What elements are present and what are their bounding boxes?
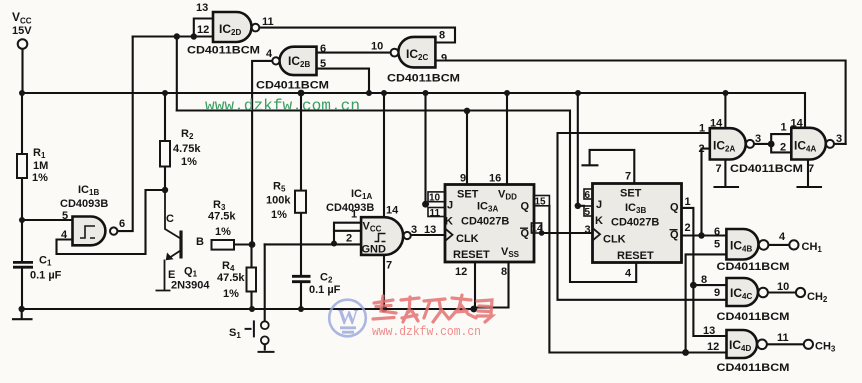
wire IC4A output: [834, 143, 845, 145]
wire IC3B Q pin1 to IC4D pin13: [682, 208, 727, 336]
ground symbol left: [13, 309, 32, 319]
ground rail: [22, 308, 474, 310]
wire S1 to its ground: [264, 344, 266, 349]
svg-text:15V: 15V: [12, 25, 32, 37]
Vcc terminal stem: [21, 49, 23, 93]
junction Vcc rail / IC2A pin14: [723, 90, 729, 96]
junction IC4D pin12 node: [682, 349, 689, 356]
svg-text:CD4011BCM: CD4011BCM: [717, 261, 790, 273]
svg-text:Q: Q: [521, 228, 530, 240]
transistor Q1: [156, 190, 211, 292]
svg-text:1: 1: [699, 123, 705, 135]
svg-text:7: 7: [386, 260, 392, 272]
svg-text:8: 8: [501, 266, 507, 278]
wire IC1A output 3 to IC3A CLK: [411, 234, 445, 236]
svg-text:4: 4: [61, 229, 68, 241]
svg-text:8: 8: [439, 30, 445, 42]
nand gate IC1B: [60, 184, 125, 245]
wire IC3B Qbar pin2 to IC4B pin6: [682, 234, 727, 236]
watermark red chinese characters: [373, 295, 492, 322]
junction IC2A output / IC4A input tie: [768, 141, 775, 148]
svg-text:GND: GND: [362, 244, 387, 256]
resistor R2: [160, 128, 201, 168]
svg-text:12: 12: [455, 266, 467, 278]
terminal CH3: [804, 340, 836, 354]
svg-text:1: 1: [781, 122, 787, 134]
svg-text:CLK: CLK: [456, 233, 479, 245]
junction IC3B J-K tie: [575, 203, 581, 209]
svg-text:7: 7: [716, 163, 722, 175]
nand gate IC4C: [701, 274, 790, 323]
svg-text:5: 5: [62, 210, 68, 222]
wire R4 top: [250, 245, 252, 268]
junction IC2D input wire / tie loop: [191, 33, 197, 39]
junction Vcc rail / IC1A pin14: [381, 90, 387, 96]
svg-text:12: 12: [707, 341, 719, 353]
junction IC3A J-K tie: [422, 201, 429, 208]
svg-text:13: 13: [424, 224, 436, 236]
svg-text:5: 5: [320, 58, 326, 70]
wire IC2C pin9 from IC4A output: [435, 61, 845, 144]
svg-text:0.1 µF: 0.1 µF: [309, 284, 341, 296]
wire IC4D pin12: [686, 351, 727, 353]
svg-text:12: 12: [197, 24, 209, 36]
junction Vcc rail / R5 branch: [298, 90, 305, 97]
svg-text:CLK: CLK: [603, 234, 626, 246]
svg-text:11: 11: [262, 16, 274, 28]
wire IC1A pin7 ground stub: [383, 255, 385, 309]
svg-text:10: 10: [429, 193, 441, 204]
wire reset line descent from node: [176, 37, 178, 111]
svg-text:CD4011BCM: CD4011BCM: [387, 73, 460, 85]
svg-text:RESET: RESET: [453, 249, 490, 261]
junction ground rail / IC1A pin7: [381, 306, 387, 312]
svg-text:8: 8: [701, 274, 707, 286]
wire R2 top: [164, 93, 166, 141]
junction Q1 base node R3-R4: [249, 241, 256, 248]
wire IC2B pin5 to Vcc rail: [317, 69, 370, 93]
svg-text:3: 3: [585, 224, 591, 236]
nand gate IC2C (left facing): [371, 30, 460, 85]
junction IC3A pin14 box corner: [539, 230, 545, 236]
svg-text:1%: 1%: [181, 156, 197, 168]
svg-text:9: 9: [441, 53, 447, 65]
junction Vcc rail / IC3A J-K tie: [423, 90, 429, 96]
svg-text:CD4027B: CD4027B: [611, 217, 659, 229]
svg-text:6: 6: [714, 226, 720, 238]
svg-text:B: B: [196, 236, 204, 248]
svg-text:3: 3: [411, 224, 417, 236]
nand gate IC4D: [703, 325, 790, 374]
wire IC1A pin14 Vcc stub: [383, 93, 385, 217]
ground IC4A pin7: [798, 160, 822, 188]
svg-text:CD4011BCM: CD4011BCM: [187, 45, 260, 57]
svg-text:Q: Q: [670, 229, 679, 241]
wire IC1A input box line: [334, 230, 361, 232]
wire R5 top: [300, 93, 302, 191]
junction IC1A input tie: [331, 241, 337, 247]
nand gate IC2A: [699, 118, 804, 176]
svg-text:1M: 1M: [33, 160, 48, 172]
svg-text:www.dzkfw.com.cn: www.dzkfw.com.cn: [372, 324, 481, 339]
svg-text:10: 10: [777, 281, 789, 293]
svg-text:SET: SET: [620, 188, 642, 200]
svg-text:16: 16: [489, 173, 501, 185]
svg-text:9: 9: [460, 173, 466, 185]
wire IC1B output 6 riser: [118, 37, 133, 232]
junction IC4C pin8 / Q1B riser: [690, 282, 697, 289]
wire IC3B pin7 hook: [583, 150, 635, 184]
wire IC2A output 3 to IC4A tied inputs: [754, 134, 791, 152]
svg-text:4: 4: [779, 231, 786, 243]
wire IC3A pin8 Vss jog: [474, 262, 509, 308]
svg-text:K: K: [445, 216, 453, 228]
svg-text:www.dzkfw.com.cn: www.dzkfw.com.cn: [205, 97, 360, 115]
svg-text:J: J: [596, 199, 602, 211]
svg-text:11: 11: [777, 332, 789, 344]
wire C1 to ground rail: [21, 267, 23, 309]
wire IC2D output 11 to IC2C pin8: [259, 28, 455, 43]
junction Vcc rail / IC3A pin16: [504, 90, 510, 96]
junction ground rail / left ground: [19, 306, 25, 312]
svg-text:J: J: [447, 200, 453, 212]
junction Vcc rail / R1 branch: [19, 90, 25, 96]
svg-text:9: 9: [714, 287, 720, 299]
wire C2 top: [300, 245, 302, 277]
svg-text:6: 6: [119, 218, 125, 230]
capacitor C1: [13, 255, 62, 282]
flip-flop IC3A: [445, 173, 534, 279]
svg-text:10: 10: [371, 41, 383, 53]
svg-text:15: 15: [535, 197, 547, 208]
svg-text:7: 7: [808, 163, 814, 175]
switch S1: [229, 320, 275, 352]
wire node to C1: [21, 220, 23, 262]
wire IC3A Q pin15 to IC4D pin12: [549, 206, 685, 353]
ground IC2A pin7: [715, 160, 739, 188]
svg-text:W: W: [338, 305, 359, 329]
wire IC4B pin5 to IC4D pin12 node: [686, 254, 727, 352]
wire IC2A pin1 to IC4C pin9: [558, 133, 727, 300]
svg-text:CD4011BCM: CD4011BCM: [256, 80, 329, 92]
wire IC1B pin4 feedback loop: [57, 190, 166, 254]
svg-text:2: 2: [685, 222, 691, 234]
svg-text:1: 1: [685, 196, 691, 208]
wire base node to IC1A input (starts after gap at S1 corner): [265, 243, 361, 245]
svg-text:11: 11: [430, 208, 441, 219]
junction Vcc rail / IC2B pin5: [366, 90, 372, 96]
junction IC2D input wire / reset line branch: [174, 33, 180, 39]
svg-text:CD4011BCM: CD4011BCM: [717, 311, 790, 323]
nand gate IC2D: [187, 2, 274, 57]
wire IC2D lower input 12: [133, 35, 213, 37]
svg-text:1%: 1%: [32, 172, 48, 184]
svg-text:6: 6: [320, 43, 326, 55]
svg-text:C: C: [166, 213, 174, 225]
svg-text:5: 5: [714, 239, 720, 251]
wire IC4C output to CH2: [767, 291, 796, 293]
svg-text:100k: 100k: [266, 195, 291, 207]
wire IC4B output to CH1: [768, 244, 790, 246]
junction reset line / IC3A pin9: [464, 108, 470, 114]
resistor R3: [208, 199, 236, 250]
svg-text:14: 14: [791, 118, 804, 130]
capacitor C2: [292, 272, 341, 297]
schmitt nand gate IC1A: [326, 188, 436, 272]
svg-text:SET: SET: [457, 189, 479, 201]
svg-text:1%: 1%: [223, 288, 239, 300]
svg-text:47.5k: 47.5k: [217, 272, 245, 284]
resistor R1: [17, 147, 48, 184]
svg-text:47.5k: 47.5k: [208, 211, 236, 223]
wire reset line to IC3B pin4: [177, 111, 636, 283]
wire IC2A pin14 stub: [724, 93, 726, 128]
svg-text:14: 14: [532, 224, 544, 235]
junction R1-C1 node / IC1B pin5: [19, 217, 25, 223]
Vcc supply label: [12, 10, 32, 49]
svg-text:2: 2: [699, 143, 705, 155]
svg-text:14: 14: [710, 118, 723, 130]
wire IC3B J/K tie from Vcc: [578, 93, 584, 206]
IC3A pin10/11 tie boxes: [428, 192, 446, 219]
junction Vcc rail / IC3B J-K tie: [575, 90, 581, 96]
watermark green url: [205, 97, 360, 115]
svg-text:2N3904: 2N3904: [171, 280, 210, 292]
junction ground rail / IC3A pin12 pin8: [470, 306, 477, 313]
resistor R4: [217, 260, 256, 300]
wire IC1A tied input loop: [334, 223, 361, 244]
wire IC2B output 4 to base node: [252, 61, 272, 245]
svg-text:Q: Q: [670, 202, 679, 214]
svg-text:RESET: RESET: [617, 250, 654, 262]
wire R4 bottom: [250, 292, 252, 310]
svg-text:3: 3: [836, 133, 842, 145]
resistor R5: [266, 181, 306, 222]
svg-text:4: 4: [266, 48, 273, 60]
wire R5 bottom: [300, 213, 302, 245]
svg-text:4.75k: 4.75k: [173, 143, 201, 155]
wire R1 bottom to node: [21, 178, 23, 220]
junction Vcc rail / R2 branch: [162, 90, 168, 96]
svg-text:3: 3: [755, 133, 761, 145]
watermark red url: [372, 324, 481, 339]
wire IC4C pin8: [693, 284, 726, 286]
wire IC4D output to CH3: [766, 343, 804, 345]
junction ground rail / R4: [249, 306, 255, 312]
wire R1 top: [21, 93, 23, 154]
svg-text:CD4011BCM: CD4011BCM: [730, 163, 803, 175]
wire C2 bottom: [300, 282, 302, 309]
nand gate IC4B: [714, 226, 790, 273]
svg-text:5: 5: [585, 207, 591, 218]
svg-text:7: 7: [625, 171, 631, 183]
wire IC3A J/K tie from Vcc: [426, 93, 429, 204]
nand gate IC4A: [780, 118, 842, 176]
wire IC1B pin5: [22, 219, 73, 221]
terminal CH2: [796, 288, 828, 304]
nand gate IC2B (left facing): [256, 43, 329, 92]
terminal CH1: [789, 240, 822, 254]
wire R3 to base node: [234, 243, 252, 245]
svg-text:CD4093B: CD4093B: [60, 198, 108, 210]
wire IC3A Qbar pin14 to IC3B CLK: [542, 232, 593, 234]
wire S1 branch: [264, 244, 266, 321]
IC3A pin14 box: [531, 223, 543, 235]
svg-text:CD4027B: CD4027B: [461, 216, 509, 228]
IC3B pin6/5 tie boxes: [584, 189, 593, 218]
svg-text:2: 2: [780, 142, 786, 154]
svg-text:Q: Q: [521, 201, 530, 213]
wire R2 bottom to collector node: [164, 167, 166, 191]
svg-text:K: K: [595, 215, 603, 227]
svg-text:CD4011BCM: CD4011BCM: [717, 362, 790, 374]
wire IC2C output 10 to IC2B pin6: [317, 52, 391, 54]
svg-text:1%: 1%: [271, 209, 287, 221]
svg-text:CD4093B: CD4093B: [326, 202, 374, 214]
wire IC3A pin12 reset stub: [474, 262, 476, 309]
wire IC3A SET pin9 stub: [466, 111, 468, 185]
svg-text:13: 13: [703, 325, 715, 337]
flip-flop IC3B: [585, 171, 691, 280]
junction R2 / Q1 collector / feedback: [162, 187, 168, 193]
junction IC3B Qbar / IC2A pin2 riser: [698, 232, 704, 238]
svg-text:2: 2: [346, 233, 352, 245]
svg-text:1%: 1%: [215, 226, 231, 238]
svg-text:4: 4: [625, 268, 632, 280]
watermark blue W logo: [329, 300, 366, 337]
IC3A pin15 box: [534, 196, 550, 208]
junction ground rail / C2: [298, 306, 304, 312]
wire IC3A pin16 Vdd stub: [506, 93, 508, 185]
wire IC2D tied input 13 loop: [194, 19, 213, 37]
svg-text:14: 14: [386, 205, 399, 217]
Vcc rail wire: [22, 93, 805, 128]
wire IC3B Qbar to IC2A pin2 riser: [702, 149, 710, 236]
svg-text:13: 13: [196, 2, 208, 14]
svg-text:0.1 µF: 0.1 µF: [30, 270, 62, 282]
svg-text:6: 6: [585, 190, 591, 201]
